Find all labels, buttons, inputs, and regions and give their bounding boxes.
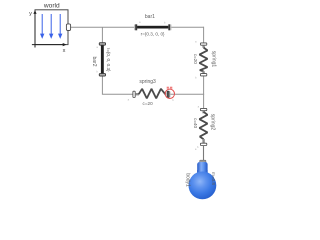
spring1 coil <box>199 48 207 72</box>
spring2 top stub <box>202 111 204 113</box>
wire bar2 bottom to spring3 left <box>102 76 133 94</box>
svg-text:body1: body1 <box>185 173 191 187</box>
spring2 bottom stub <box>202 139 204 143</box>
svg-text:spring1: spring1 <box>211 51 217 68</box>
spring1 bottom stub <box>202 71 204 74</box>
bar1 FixedTranslation r={0.3, 0, 0} <box>134 14 171 37</box>
bar1 frame_b connector <box>168 24 170 30</box>
spring1 frame_b connector (bottom) <box>200 74 206 76</box>
wire junction world to bar2 top <box>101 27 103 43</box>
spring3 coil <box>139 89 166 99</box>
svg-text:b: b <box>172 98 174 102</box>
spring3 left stub <box>135 93 139 95</box>
svg-text:b: b <box>96 70 98 74</box>
svg-text:spring2: spring2 <box>210 114 216 131</box>
spring1 frame_a connector (top) <box>200 43 206 45</box>
svg-text:c=40: c=40 <box>193 118 198 129</box>
svg-text:world: world <box>43 3 60 10</box>
spring2 frame_b connector (bottom) <box>200 143 206 145</box>
world component W1 <box>29 3 70 54</box>
spring2 frame_a connector (top) <box>200 108 206 110</box>
red highlight circle on frame_b node <box>165 89 174 98</box>
wire spring1 bottom through junction to spring2 top <box>203 76 205 109</box>
svg-text:b: b <box>197 145 199 149</box>
svg-text:bar2: bar2 <box>91 56 97 66</box>
bar1 black bar <box>137 26 168 29</box>
spring3 frame_a connector (left) <box>133 91 135 97</box>
svg-text:b: b <box>195 75 197 79</box>
svg-text:a: a <box>128 98 130 101</box>
x axis arrow <box>32 43 67 54</box>
wire spring3 right to right column <box>170 93 204 95</box>
svg-text:a: a <box>96 46 98 49</box>
body1 gray collar <box>200 160 206 163</box>
y axis arrow <box>29 10 36 48</box>
spring2 coil <box>199 112 207 139</box>
spring2 c=40 (vertical) <box>193 106 215 149</box>
svg-text:m=0.8: m=0.8 <box>211 172 216 185</box>
red tiny annotation text <box>167 87 169 89</box>
body1 neck wire <box>203 146 205 162</box>
svg-text:x: x <box>63 48 66 54</box>
body1 m=0.8 <box>185 146 217 200</box>
bar2 black bar <box>101 45 104 73</box>
wire world.frame_b to bar1/corner (top horizontal) <box>70 26 204 28</box>
gravity arrow 2 <box>49 14 53 39</box>
svg-text:spring3: spring3 <box>139 79 156 85</box>
svg-text:a: a <box>195 148 197 151</box>
bar2 frame_a connector (top) <box>99 43 105 45</box>
svg-text:bar1: bar1 <box>145 14 155 20</box>
svg-text:c=20: c=20 <box>193 54 198 65</box>
body1 cylinder <box>197 162 207 179</box>
bar1 frame_a connector <box>134 25 135 31</box>
world connector frame_b <box>66 24 70 31</box>
spring3 c=20 (horizontal) <box>128 79 175 106</box>
svg-text:y: y <box>29 11 32 17</box>
bar2 frame_b connector (bottom) <box>99 74 105 76</box>
wire corner down to spring1 top <box>203 27 205 43</box>
svg-text:c=20: c=20 <box>143 101 154 106</box>
svg-text:b: b <box>164 20 166 24</box>
svg-text:a: a <box>139 21 141 24</box>
world box <box>35 10 68 45</box>
spring3 frame_b connector (right) <box>167 91 169 97</box>
gravity arrow 3 <box>58 14 62 39</box>
svg-text:a: a <box>198 106 200 109</box>
bar2 FixedTranslation r={0, 0, 0.3} (vertical) <box>91 43 111 76</box>
svg-text:r={0, 0, 0.3}: r={0, 0, 0.3} <box>106 48 111 72</box>
svg-text:r={0.3, 0, 0}: r={0.3, 0, 0} <box>141 31 165 36</box>
svg-text:a: a <box>195 40 197 43</box>
spring1 c=20 (vertical) <box>193 40 217 79</box>
gravity arrow 1 <box>40 14 44 39</box>
body1 sphere <box>189 172 217 200</box>
spring1 top stub <box>202 45 204 47</box>
